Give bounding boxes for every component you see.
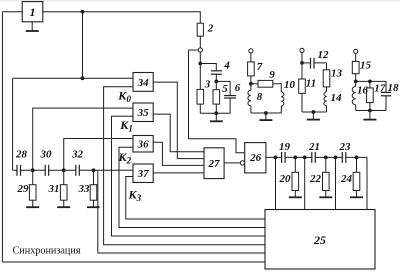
wire filter 3 bottom rail xyxy=(302,111,327,113)
svg-text:35: 35 xyxy=(137,107,150,119)
resistor 15 xyxy=(352,60,371,74)
wire terminal left to mixer feed xyxy=(189,49,199,51)
ground filter 2 xyxy=(259,113,272,120)
wire filter 1 bottom rail xyxy=(200,112,230,114)
wire capacitor 19 to capacitor 21 xyxy=(285,156,312,158)
wire capacitor 18 down xyxy=(385,96,387,111)
wire node 2 down to block 25 xyxy=(335,157,337,209)
svg-text:23: 23 xyxy=(339,141,352,153)
block 27 xyxy=(204,148,224,179)
wire filter 4 bottom rail xyxy=(356,110,386,112)
svg-text:К2: К2 xyxy=(118,150,132,166)
junction dot node 3 resistor tap xyxy=(355,156,359,160)
wire resistor 17 down xyxy=(369,103,371,111)
wire block 35 output to block 27 xyxy=(153,114,204,152)
svg-text:29: 29 xyxy=(17,183,30,195)
capacitor 21 xyxy=(308,141,320,163)
wire resistor 15 to node xyxy=(355,74,357,82)
resistor 5 xyxy=(213,83,228,104)
wire block 37 output to block 27 xyxy=(153,172,204,174)
svg-text:30: 30 xyxy=(40,149,53,161)
wire resistor 5 down xyxy=(215,104,217,113)
ground resistor 29 xyxy=(26,200,39,207)
svg-text:32: 32 xyxy=(71,149,84,161)
capacitor 30 xyxy=(40,149,53,176)
ground filter 1 xyxy=(210,113,223,121)
wire resistor 13 to inductor 14 xyxy=(326,87,328,92)
svg-text:5: 5 xyxy=(222,83,228,95)
junction dot row node 3 xyxy=(92,168,96,172)
wire node to capacitor 12 xyxy=(302,62,311,64)
ground resistor 20 xyxy=(289,191,302,198)
wire node right to capacitor 18 branch xyxy=(356,81,386,92)
wire block1 right to resistor 2 xyxy=(43,12,201,23)
ground filter 3 xyxy=(307,112,320,120)
node filter 4 middle xyxy=(368,80,372,84)
block 37 xyxy=(133,164,153,183)
wire 26 output down to block 25 xyxy=(275,157,277,209)
junction dot carrier bus xyxy=(81,76,85,80)
wire node B to resistor 5 xyxy=(215,81,217,89)
svg-text:15: 15 xyxy=(360,60,372,72)
wire node to inductor 8 xyxy=(250,84,252,91)
node filter 3 xyxy=(300,61,304,65)
block 25 xyxy=(265,210,375,270)
wire resistor 7 to node xyxy=(250,76,252,84)
wire capacitor 32 to block 37 xyxy=(79,169,133,171)
capacitor 28 xyxy=(15,149,28,176)
svg-text:19: 19 xyxy=(279,141,291,153)
resistor 31 xyxy=(48,170,68,200)
ground resistor 31 xyxy=(57,200,70,207)
junction dot filter 2 rail xyxy=(264,111,268,115)
svg-text:6: 6 xyxy=(235,82,241,94)
resistor 22 xyxy=(309,157,329,190)
wire capacitor 30 to capacitor 32 xyxy=(49,169,76,171)
wire carrier bus to block 34 xyxy=(13,77,133,79)
junction dot node 1 down tap xyxy=(303,156,307,160)
wire resistor 11 down xyxy=(301,93,303,112)
resistor 17 xyxy=(367,83,386,103)
svg-text:37: 37 xyxy=(137,168,150,180)
ground filter 4 xyxy=(363,111,376,120)
wire node to capacitor 4 xyxy=(200,64,216,71)
svg-text:12: 12 xyxy=(318,49,330,61)
node filter 2 xyxy=(249,82,253,86)
wire inductor 10 down xyxy=(280,106,282,113)
svg-text:31: 31 xyxy=(48,183,60,195)
svg-text:17: 17 xyxy=(374,83,386,95)
svg-text:10: 10 xyxy=(284,79,296,91)
resistor 2 xyxy=(197,23,214,37)
wire node to resistor 11 xyxy=(301,63,303,79)
svg-text:9: 9 xyxy=(269,69,275,81)
resistor 7 xyxy=(248,61,263,76)
resistor 13 xyxy=(323,68,342,87)
inductor 14 xyxy=(324,92,342,106)
block 26 xyxy=(245,143,266,173)
wire node to resistor 3 xyxy=(199,64,201,90)
junction dot node 2 down tap xyxy=(334,156,338,160)
svg-text:8: 8 xyxy=(257,91,263,103)
inductor 10 xyxy=(281,79,295,106)
resistor 3 xyxy=(197,79,211,105)
wire node 1 down to block 25 xyxy=(304,157,306,209)
wire capacitor 21 to capacitor 23 xyxy=(315,156,342,158)
wire node to inductor 16 xyxy=(355,81,357,86)
ground resistor 33 xyxy=(87,200,100,207)
wire block 36 output to block 27 xyxy=(153,142,204,165)
wire K0 control block 34 to block 25 input 4 xyxy=(104,87,265,245)
wire K2 control block 36 to block 25 input 2 xyxy=(119,147,265,227)
wire resistor 9 to inductor 10 xyxy=(273,84,282,92)
junction dot filter 4 rail xyxy=(368,109,372,113)
junction dot row node 1 xyxy=(31,168,35,172)
svg-text:3: 3 xyxy=(204,79,211,91)
svg-text:К3: К3 xyxy=(128,188,142,204)
junction dot filter 1 rail xyxy=(214,111,218,115)
wire capacitor 28 to capacitor 30 xyxy=(21,169,46,171)
svg-text:Синхронизация: Синхронизация xyxy=(13,246,81,257)
wire left sync bus down xyxy=(1,12,3,262)
inverter bubble xyxy=(240,161,244,165)
svg-text:21: 21 xyxy=(308,141,320,153)
wire delay tap to block 35 xyxy=(33,108,133,170)
terminal circle filter 1 xyxy=(198,48,202,52)
wire inductor 14 down xyxy=(326,106,328,112)
wire block1 left output xyxy=(2,11,22,13)
capacitor 4 xyxy=(211,60,230,75)
block 35 xyxy=(133,103,153,122)
block 1 xyxy=(22,2,43,22)
faint scan edge top xyxy=(0,0,400,1)
svg-text:1: 1 xyxy=(30,5,36,19)
capacitor 19 xyxy=(279,141,291,163)
svg-text:33: 33 xyxy=(78,183,91,195)
svg-text:36: 36 xyxy=(137,139,150,151)
wire block 26 output line xyxy=(266,156,282,158)
svg-text:20: 20 xyxy=(279,173,292,185)
junction dot 26 output xyxy=(274,156,278,160)
svg-text:14: 14 xyxy=(331,92,343,104)
wire junction down to carrier bus xyxy=(82,12,84,79)
wire mixer feed down and right to block 26 xyxy=(189,50,245,153)
svg-text:18: 18 xyxy=(388,82,400,94)
svg-text:11: 11 xyxy=(306,78,316,90)
wire delay tap to block 36 xyxy=(64,139,133,171)
wire carrier bus corner down to delay row xyxy=(12,78,14,170)
node A filter 1 xyxy=(198,62,202,66)
svg-text:34: 34 xyxy=(137,77,150,89)
svg-text:2: 2 xyxy=(207,23,214,35)
wire block 34 output to block 27 xyxy=(153,82,204,159)
wire node to resistor 17 xyxy=(369,81,371,88)
svg-text:22: 22 xyxy=(309,173,322,185)
capacitor 12 xyxy=(311,49,330,69)
wire node to resistor 9 xyxy=(251,83,258,85)
svg-text:25: 25 xyxy=(313,233,326,247)
node filter 4 left xyxy=(354,80,358,84)
svg-text:К0: К0 xyxy=(117,89,131,105)
inductor 16 xyxy=(352,85,368,105)
wire K3 control block 37 to block 25 input 1 xyxy=(126,177,265,220)
terminal circle filter 3 xyxy=(300,48,304,52)
inductor 8 xyxy=(248,90,263,106)
wire capacitor 4 to node B xyxy=(215,74,217,81)
junction dot row node 2 xyxy=(62,168,66,172)
capacitor 18 xyxy=(381,82,399,96)
wire capacitor 12 to resistor 13 xyxy=(314,63,327,70)
resistor 29 xyxy=(17,170,37,200)
svg-text:27: 27 xyxy=(208,158,221,170)
ground resistor 22 xyxy=(319,191,332,198)
svg-text:4: 4 xyxy=(223,60,230,72)
junction dot filter 3 rail xyxy=(312,110,316,114)
wire inductor 8 down xyxy=(250,106,252,113)
wire node 3 corner down to block 25 xyxy=(366,157,368,209)
resistor 9 xyxy=(258,69,275,87)
junction dot node 1 resistor tap xyxy=(293,156,297,160)
wire delay row tap to block 25 input 5 xyxy=(98,170,265,253)
resistor 20 xyxy=(279,157,299,190)
svg-text:13: 13 xyxy=(331,68,343,80)
wire inductor 16 down xyxy=(355,105,357,111)
resistor 33 xyxy=(78,170,97,200)
wire resistor 3 down xyxy=(199,104,201,113)
resistor 24 xyxy=(340,157,360,190)
wire sync bus to block 25 input 6 xyxy=(2,261,265,263)
block 36 xyxy=(133,136,153,153)
resistor 11 xyxy=(299,78,317,94)
terminal circle filter 4 xyxy=(354,49,358,53)
capacitor 32 xyxy=(71,149,84,176)
wire terminal to resistor 7 xyxy=(250,53,252,62)
terminal circle filter 2 xyxy=(249,49,253,53)
wire row to capacitor 28 xyxy=(13,169,17,171)
ground of block 1 xyxy=(26,22,39,31)
capacitor 23 xyxy=(339,141,352,163)
node B filter 1 xyxy=(214,80,218,84)
wire capacitor 6 down xyxy=(229,98,231,113)
svg-text:К1: К1 xyxy=(119,118,133,134)
capacitor 6 xyxy=(224,82,241,98)
wire terminal to node xyxy=(301,53,303,63)
wire node B to capacitor 6 xyxy=(216,81,230,95)
junction dot node 2 resistor tap xyxy=(324,156,328,160)
svg-text:7: 7 xyxy=(257,61,263,73)
wire terminal to resistor 15 xyxy=(355,53,357,61)
wire block 27 output xyxy=(224,162,240,164)
svg-text:28: 28 xyxy=(15,149,28,161)
wire K1 control block 35 to block 25 input 3 xyxy=(112,116,266,236)
wire terminal to node xyxy=(199,52,201,63)
junction dot top bus xyxy=(81,10,85,14)
wire filter 2 bottom rail xyxy=(251,112,281,114)
svg-text:24: 24 xyxy=(340,173,353,185)
svg-text:26: 26 xyxy=(249,152,262,164)
block 34 xyxy=(133,73,153,92)
ground resistor 24 xyxy=(350,191,363,198)
wire resistor 2 to terminal xyxy=(199,36,201,48)
wire capacitor 23 to corner xyxy=(346,156,367,158)
